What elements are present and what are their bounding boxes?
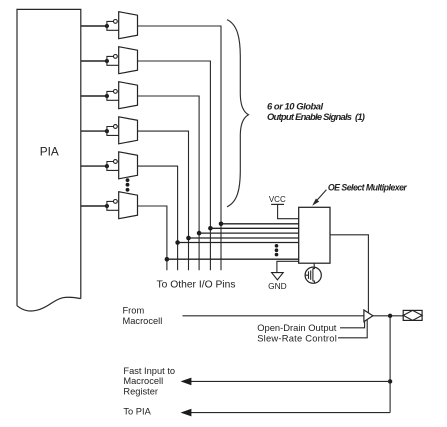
ellipsis dots (more OE inputs): [275, 244, 279, 256]
svg-text:VCC: VCC: [269, 195, 286, 204]
VCC supply symbol: [269, 195, 299, 219]
mux M2 with PIA input wire, junction and inverted input bubble: [81, 47, 138, 74]
mux M1 with PIA input wire, junction and inverted input bubble: [81, 12, 138, 39]
wire: mux M6 output to vertical OE line 6: [138, 206, 167, 270]
wire: mux M5 output to vertical OE line 5: [138, 166, 178, 270]
svg-text:To Other I/O Pins: To Other I/O Pins: [157, 280, 236, 291]
label: 6 or 10 Global Output Enable Signals (1): [267, 100, 365, 122]
svg-text:OE Select Multiplexer: OE Select Multiplexer: [328, 182, 408, 192]
wire: macrocell output to buffer input: [183, 315, 364, 317]
label: From Macrocell: [123, 306, 163, 326]
label: To Other I/O Pins: [157, 280, 236, 291]
svg-text:From: From: [123, 306, 145, 316]
svg-text:GND: GND: [268, 281, 287, 291]
svg-text:6 or 10 Global: 6 or 10 Global: [267, 100, 324, 111]
wire: buffer output to I/O pin: [373, 315, 403, 317]
wire+arrow: fast input to macrocell register: [181, 378, 391, 386]
svg-text:Output Enable Signals (1): Output Enable Signals (1): [267, 111, 365, 122]
EEPROM configuration cell: [305, 263, 321, 283]
label: OE Select Multiplexer with pointer arrow: [312, 182, 407, 205]
mux M6 with PIA input wire, junction and inverted input bubble: [81, 192, 138, 219]
wire: pin feedback vertical: [389, 316, 391, 413]
label: To PIA: [123, 407, 151, 417]
junction and bus wire 3 into OE select multiplexer: [197, 231, 299, 236]
junction and bus wire 4 into OE select multiplexer: [186, 236, 299, 241]
PIA block: [17, 9, 81, 311]
tri-state output buffer: [364, 310, 373, 322]
junction and bus wire 5 into OE select multiplexer: [175, 240, 298, 245]
wire: OE select output to tri-state buffer enable: [330, 235, 368, 313]
wire+arrow: feedback to PIA: [181, 409, 391, 417]
junction and bus wire 2 into OE select multiplexer: [208, 226, 299, 231]
junction and bus wire 6 into OE select multiplexer: [165, 257, 299, 262]
junction at buffer output: [388, 314, 392, 318]
svg-text:Macrocell: Macrocell: [123, 376, 163, 386]
label+wire: Slew-Rate Control: [257, 319, 367, 343]
wire: mux M2 output to vertical OE line 2: [138, 61, 211, 270]
svg-text:Slew-Rate Control: Slew-Rate Control: [257, 332, 337, 343]
junction on feedback at fast input: [388, 379, 392, 383]
svg-text:Macrocell: Macrocell: [123, 316, 163, 326]
I/O pin pad symbol: [403, 310, 422, 320]
ellipsis dots (more muxes): [126, 178, 130, 192]
junction and bus wire 1 into OE select multiplexer: [219, 222, 299, 227]
mux M3 with PIA input wire, junction and inverted input bubble: [81, 82, 138, 109]
svg-text:PIA: PIA: [40, 144, 59, 158]
svg-text:To PIA: To PIA: [123, 407, 151, 417]
GND symbol: [268, 261, 299, 291]
OE select multiplexer U1: [299, 207, 330, 263]
label: Fast Input to Macrocell Register: [123, 366, 175, 397]
svg-text:Open-Drain Output: Open-Drain Output: [257, 322, 337, 333]
mux M4 with PIA input wire, junction and inverted input bubble: [81, 117, 138, 144]
label+wire: Open-Drain Output control: [257, 321, 364, 333]
wire: mux M1 output to vertical OE line 1: [138, 26, 222, 270]
svg-text:Fast Input to: Fast Input to: [123, 366, 175, 376]
brace (global OE signals group): [227, 20, 249, 207]
mux M5 with PIA input wire, junction and inverted input bubble: [81, 152, 138, 179]
wire: mux M4 output to vertical OE line 4: [138, 131, 189, 270]
svg-text:Register: Register: [123, 386, 158, 396]
wire: mux M3 output to vertical OE line 3: [138, 96, 200, 270]
